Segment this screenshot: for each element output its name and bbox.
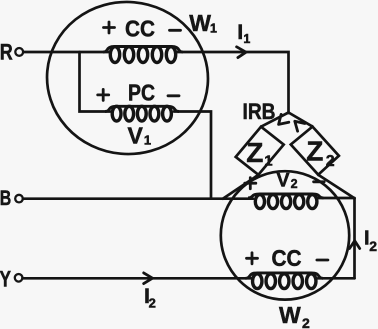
svg-text:1: 1 [264, 152, 272, 169]
svg-text:Y: Y [0, 266, 11, 291]
svg-text:1: 1 [210, 21, 217, 35]
svg-text:CC: CC [125, 16, 155, 42]
svg-text:R: R [0, 39, 13, 64]
arrow I2 up [350, 241, 360, 249]
arrow IRB into Z1 branch [279, 114, 289, 124]
wire PC to B line [174, 112, 211, 199]
svg-text:IRB: IRB [243, 99, 276, 124]
impedance Z1 diamond [236, 127, 284, 175]
wire Y line [23, 277, 252, 280]
svg-text:V: V [128, 122, 144, 148]
svg-text:I: I [237, 20, 243, 44]
svg-text:W: W [189, 10, 211, 36]
svg-text:2: 2 [326, 153, 335, 170]
wire branch to PC coil [80, 52, 111, 112]
wire Z1 to B line corner [223, 175, 259, 199]
wire R to CC coil [24, 51, 110, 54]
svg-text:CC: CC [272, 245, 302, 271]
wire B line [23, 197, 253, 200]
coil V2 of W2 [248, 194, 324, 209]
svg-text:Z: Z [246, 137, 263, 168]
arrow I1 [237, 47, 246, 58]
svg-text:1: 1 [144, 133, 151, 148]
coil CC of W1 [103, 47, 183, 63]
svg-text:PC: PC [128, 80, 155, 106]
plus sign PC [98, 89, 109, 100]
arrow toward apex on Z2 branch [295, 121, 305, 131]
wire V2 coil to right side [319, 197, 355, 200]
svg-text:B: B [0, 187, 11, 210]
plus sign CC W2 [247, 253, 258, 264]
arrow I2 on Y line [144, 273, 153, 284]
plus sign CC W1 [104, 22, 115, 33]
minus sign CC W1 [170, 29, 181, 32]
minus sign CC W2 [317, 259, 328, 262]
terminal R circle [15, 48, 23, 56]
wire Z2 to right corner [318, 175, 354, 199]
plus sign V2 [245, 178, 256, 189]
terminal Y circle [15, 274, 23, 282]
svg-text:Z: Z [306, 135, 323, 166]
svg-text:2: 2 [302, 315, 310, 329]
svg-text:V: V [277, 169, 290, 191]
impedance Z2 diamond [291, 127, 339, 175]
minus sign V2 [314, 180, 325, 183]
svg-text:2: 2 [149, 295, 156, 310]
wire apex to Z2 [289, 113, 313, 127]
terminal B circle [15, 195, 23, 203]
coil CC of W2 [246, 273, 324, 289]
coil PC of W1 [105, 106, 179, 121]
node: delta apex wire [261, 113, 289, 127]
wire CC coil to corner and down to node [177, 52, 289, 113]
svg-text:2: 2 [291, 177, 298, 191]
svg-text:2: 2 [369, 238, 377, 254]
wire CC W2 to right vertical [318, 277, 355, 280]
minus sign PC [168, 94, 179, 97]
svg-text:W: W [279, 302, 301, 328]
svg-text:1: 1 [243, 32, 250, 46]
wire right vertical I2 [353, 198, 356, 278]
wattmeter W1 circle [41, 0, 215, 161]
wattmeter W2 circle [221, 171, 349, 299]
